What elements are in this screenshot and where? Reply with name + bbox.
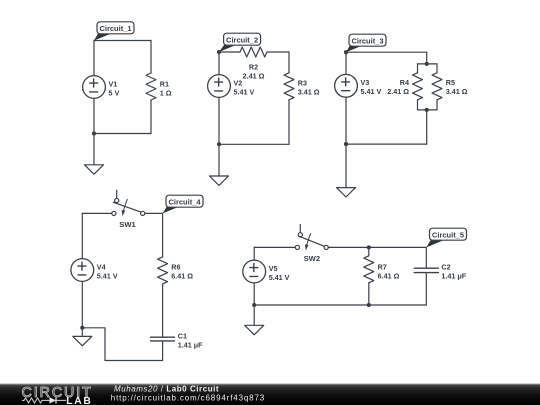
- svg-text:5 V: 5 V: [109, 88, 120, 97]
- svg-text:V4: V4: [97, 262, 106, 271]
- wire left-top c3: [345, 52, 347, 74]
- wire V5-bottom c5: [253, 283, 255, 305]
- svg-text:6.41 Ω: 6.41 Ω: [171, 271, 193, 280]
- wire right-top c1: [150, 41, 152, 74]
- junction c5 R7-bottom: [367, 303, 371, 307]
- svg-text:V2: V2: [234, 78, 243, 87]
- switch SW2: [295, 225, 328, 263]
- wire top-left c2: [219, 51, 240, 53]
- junction c3 bottom: [344, 142, 348, 146]
- junction c1: [92, 131, 96, 135]
- svg-text:R3: R3: [298, 78, 307, 87]
- resistor R5: [432, 64, 468, 110]
- ground c3: [337, 144, 356, 197]
- junction c5 R7-top: [367, 245, 371, 249]
- wire left-top c1: [93, 41, 95, 76]
- svg-text:1 Ω: 1 Ω: [160, 88, 172, 97]
- junction c4: [80, 326, 84, 330]
- voltage source V4: [71, 259, 118, 282]
- svg-text:LAB: LAB: [66, 396, 92, 405]
- resistor R1: [146, 73, 172, 100]
- svg-text:R4: R4: [400, 78, 409, 87]
- resistor R6: [158, 257, 194, 284]
- wire right drop c3: [426, 52, 428, 64]
- svg-text:3.41 Ω: 3.41 Ω: [446, 87, 468, 96]
- wire right-bottom c2: [288, 100, 290, 145]
- wire par top c3: [418, 63, 438, 65]
- svg-text:Circuit_3: Circuit_3: [351, 37, 383, 46]
- svg-text:Muhams20 / Lab0 Circuit: Muhams20 / Lab0 Circuit: [114, 384, 219, 393]
- wire V4-bottom c4: [81, 281, 83, 327]
- node label Circuit_4: [163, 195, 203, 213]
- svg-text:Circuit_4: Circuit_4: [168, 198, 201, 207]
- node label Circuit_2: [219, 33, 261, 52]
- svg-text:V5: V5: [269, 264, 278, 273]
- wire switch-to-C2 c5: [328, 246, 426, 248]
- wire right riser c3: [426, 110, 428, 144]
- wire top-right c2: [267, 51, 289, 53]
- junction c5 V5-bottom: [252, 303, 256, 307]
- svg-text:2.41 Ω: 2.41 Ω: [387, 87, 409, 96]
- voltage source V1: [83, 76, 120, 99]
- svg-text:Circuit_1: Circuit_1: [99, 24, 131, 33]
- wire bottom c1: [94, 133, 151, 135]
- wire bottom loop c4: [82, 328, 162, 361]
- wire right-top c2: [288, 52, 290, 73]
- wire bottom c5: [254, 304, 426, 306]
- capacitor C1: [151, 331, 204, 349]
- wire V5-to-switch c5: [254, 246, 295, 248]
- node label Circuit_3: [346, 34, 386, 52]
- svg-text:V3: V3: [361, 78, 370, 87]
- junction c2 bottom: [217, 142, 221, 146]
- svg-text:SW2: SW2: [304, 254, 320, 263]
- wire switch-left c4: [82, 212, 112, 214]
- wire top c3: [346, 51, 427, 53]
- svg-text:3.41 Ω: 3.41 Ω: [298, 87, 320, 96]
- wire left-top c2: [218, 52, 220, 75]
- svg-text:2.41 Ω: 2.41 Ω: [243, 71, 265, 80]
- wire R6-to-C1 c4: [162, 284, 164, 337]
- resistor R7: [364, 247, 400, 305]
- ground c4: [73, 328, 92, 346]
- svg-text:http://circuitlab.com/c6894rf4: http://circuitlab.com/c6894rf43q873: [111, 394, 265, 403]
- junction c3 par-bottom: [425, 108, 429, 112]
- junction c2 top: [217, 50, 221, 54]
- svg-text:V1: V1: [109, 79, 118, 88]
- svg-text:R5: R5: [446, 78, 455, 87]
- svg-text:R2: R2: [249, 62, 258, 71]
- wire C2-bottom c5: [425, 273, 427, 305]
- ground c5: [245, 305, 264, 335]
- resistor R4: [387, 64, 422, 110]
- voltage source V2: [208, 75, 255, 98]
- wire right-bottom c1: [150, 100, 152, 134]
- junction c3 top-left: [344, 50, 348, 54]
- svg-text:SW1: SW1: [119, 220, 136, 229]
- svg-text:R7: R7: [378, 263, 387, 272]
- svg-text:R6: R6: [171, 262, 180, 271]
- svg-text:Circuit_5: Circuit_5: [432, 231, 464, 240]
- resistor R2: [240, 47, 267, 80]
- wire top c1: [94, 40, 151, 42]
- svg-text:R1: R1: [160, 79, 169, 88]
- wire left riser c4: [81, 213, 83, 258]
- svg-text:Circuit_2: Circuit_2: [226, 36, 258, 45]
- wire switch-right c4: [145, 212, 163, 214]
- CircuitLab logo: [22, 385, 93, 405]
- capacitor C2: [414, 263, 466, 281]
- switch SW1: [112, 190, 145, 229]
- svg-text:5.41 V: 5.41 V: [269, 273, 290, 282]
- svg-text:5.41 V: 5.41 V: [361, 87, 382, 96]
- voltage source V5: [243, 260, 290, 283]
- svg-text:1.41 μF: 1.41 μF: [441, 272, 466, 281]
- wire left riser c5: [253, 247, 255, 260]
- svg-text:C1: C1: [178, 331, 187, 340]
- ground c2: [210, 144, 229, 185]
- svg-text:6.41 Ω: 6.41 Ω: [378, 272, 400, 281]
- wire left-bottom c3: [345, 97, 347, 144]
- wire bottom c2: [219, 143, 289, 145]
- svg-text:5.41 V: 5.41 V: [97, 271, 118, 280]
- svg-text:C2: C2: [441, 263, 450, 272]
- junction c3 par-top: [425, 62, 429, 66]
- node label Circuit_1: [94, 22, 134, 41]
- ground c1: [85, 134, 104, 175]
- wire par bottom c3: [418, 109, 438, 111]
- node label Circuit_5: [426, 228, 466, 247]
- voltage source V3: [335, 74, 382, 97]
- footer bar: [0, 384, 540, 405]
- wire left-bottom c2: [218, 97, 220, 144]
- wire C2-top c5: [425, 247, 427, 268]
- wire right riser c4: [162, 213, 164, 257]
- svg-text:1.41 μF: 1.41 μF: [178, 340, 203, 349]
- wire left-bottom c1: [93, 98, 95, 133]
- wire bottom c3: [346, 143, 427, 145]
- resistor R3: [284, 73, 320, 100]
- svg-text:5.41 V: 5.41 V: [234, 87, 255, 96]
